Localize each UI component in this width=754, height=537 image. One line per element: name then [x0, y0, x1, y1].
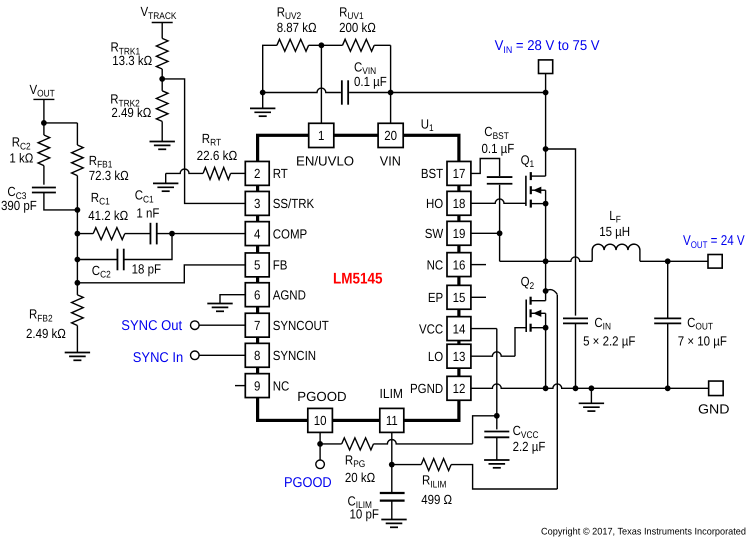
- svg-text:NC: NC: [427, 257, 444, 272]
- svg-text:ILIM: ILIM: [380, 386, 404, 401]
- wire Q1 source down to SW row: [545, 204, 547, 262]
- svg-text:2: 2: [254, 166, 260, 181]
- pin 5 box: [245, 253, 269, 277]
- resistor RFB1: [72, 145, 84, 176]
- wire SW row to inductor with hop over CIN line: [500, 257, 593, 261]
- svg-text:GND: GND: [698, 402, 730, 417]
- wire COUT bottom to PGND: [667, 323, 669, 388]
- svg-text:13: 13: [453, 349, 466, 364]
- wire PGND row with hops: [471, 384, 709, 388]
- resistor RILIM: [421, 459, 451, 471]
- svg-text:7: 7: [254, 318, 260, 333]
- svg-text:14: 14: [453, 321, 466, 336]
- svg-text:1 kΩ: 1 kΩ: [9, 150, 33, 165]
- wire SW down to Q2 drain: [545, 261, 547, 291]
- wire RRT ground stem: [165, 173, 167, 183]
- ground for RTRK2: [150, 141, 175, 143]
- junction CC3 join: [75, 207, 81, 213]
- terminal PGOOD circle: [316, 460, 325, 469]
- svg-text:12: 12: [453, 381, 466, 396]
- pin 7 box: [245, 313, 269, 337]
- svg-text:18 pF: 18 pF: [132, 262, 161, 277]
- resistor RUV2: [277, 39, 309, 51]
- wire FB node to RC1: [77, 233, 93, 235]
- junction SW node: [543, 258, 549, 264]
- svg-text:8: 8: [254, 348, 260, 363]
- wire divider to SS/TRK pin 3: [162, 79, 245, 203]
- svg-text:6: 6: [254, 287, 260, 302]
- wire RTRK1 to RTRK2: [161, 69, 163, 91]
- wire VCC pin 14 right: [471, 328, 497, 330]
- pin 6 box: [245, 283, 269, 307]
- wire pin 10 down: [319, 432, 321, 460]
- wire CILIM to ground: [391, 501, 393, 520]
- svg-text:41.2 kΩ: 41.2 kΩ: [88, 208, 128, 223]
- svg-text:19: 19: [453, 226, 466, 241]
- svg-text:2.49 kΩ: 2.49 kΩ: [26, 326, 66, 341]
- junction PGND COUT bottom: [665, 385, 671, 391]
- op-amp U1 LM5145 controller body: [258, 135, 459, 420]
- svg-text:7 × 10 µF: 7 × 10 µF: [678, 333, 727, 348]
- junction VIN branch to CIN: [543, 146, 549, 152]
- svg-text:15 µH: 15 µH: [599, 224, 630, 239]
- junction pin 20 VIN node: [388, 90, 394, 96]
- junction UVLO divider node: [319, 42, 325, 48]
- inductor LF: [592, 244, 640, 261]
- wire CBST node down: [499, 233, 501, 261]
- svg-text:1: 1: [318, 128, 324, 143]
- resistor RUV1: [343, 39, 375, 51]
- wire RRT to pin 2: [231, 172, 246, 174]
- svg-text:4: 4: [254, 226, 260, 241]
- node VTRACK terminal tick: [152, 22, 173, 24]
- junction track divider node: [159, 76, 165, 82]
- wire CIN bottom to PGND: [575, 323, 577, 388]
- svg-text:SYNCOUT: SYNCOUT: [273, 318, 329, 333]
- pin 1 box: [309, 123, 334, 147]
- wire RFB2 to ground: [76, 326, 78, 353]
- svg-text:20 kΩ: 20 kΩ: [345, 470, 375, 485]
- wire VOUT node to RFB1 top: [44, 122, 78, 124]
- wire RPG to VCC riser with hop: [374, 440, 473, 444]
- junction PGOOD node: [317, 441, 323, 447]
- wire RTRK2 to ground: [161, 121, 163, 141]
- svg-text:BST: BST: [421, 166, 443, 181]
- pin 16 box: [447, 253, 471, 277]
- junction PGND ground stem: [589, 385, 595, 391]
- ground for CVCC: [484, 459, 509, 461]
- svg-text:22.6 kΩ: 22.6 kΩ: [197, 148, 238, 163]
- wire pin 11 down: [391, 432, 393, 464]
- ground for RRT: [153, 182, 178, 184]
- pin 20 box: [378, 123, 403, 147]
- junction CC2 row: [75, 257, 81, 263]
- transistor Q1 high-side NMOS: [525, 176, 527, 206]
- pin 2 box: [245, 161, 269, 185]
- svg-text:COMP: COMP: [273, 226, 308, 241]
- svg-text:PGOOD: PGOOD: [284, 475, 332, 491]
- pin 18 box: [447, 191, 471, 215]
- wire AGND pin 6 to ground: [220, 295, 245, 304]
- pin 8 box: [245, 343, 269, 367]
- svg-text:2.49 kΩ: 2.49 kΩ: [111, 105, 151, 120]
- svg-text:Copyright © 2017, Texas Instru: Copyright © 2017, Texas Instruments Inco…: [541, 526, 746, 537]
- wire VOUT down: [43, 99, 45, 135]
- capacitor COUT: [654, 317, 681, 319]
- wire RUV1 to pin 20 stub: [374, 44, 390, 46]
- pin 3 box: [245, 191, 269, 215]
- junction VOUT node: [41, 120, 47, 126]
- junction RC1 row: [75, 231, 81, 237]
- ground for CILIM: [381, 519, 406, 521]
- junction Q2 source-body: [543, 325, 549, 331]
- svg-text:0.1 µF: 0.1 µF: [354, 74, 387, 89]
- wire Q2 drain stub up: [545, 291, 547, 301]
- junction Q1 source-body: [543, 201, 549, 207]
- svg-text:PGOOD: PGOOD: [297, 389, 346, 404]
- svg-text:SYNC Out: SYNC Out: [121, 318, 182, 334]
- wire PGOOD node to RPG: [320, 443, 342, 445]
- wire CC2 row left: [77, 259, 117, 261]
- terminal VIN input: [539, 60, 553, 74]
- wire UVLO top rail left corner: [263, 45, 277, 108]
- wire LO pin 13 to Q2 gate with hop: [471, 352, 515, 356]
- svg-text:16: 16: [453, 257, 466, 272]
- pin 10 box: [308, 408, 333, 432]
- svg-text:2.2 µF: 2.2 µF: [513, 439, 546, 454]
- wire pin 20 stub: [390, 45, 392, 123]
- svg-text:LM5145: LM5145: [333, 271, 383, 288]
- resistor RRT: [203, 167, 231, 179]
- pin 19 box: [447, 221, 471, 245]
- wire CC2 to COMP node: [124, 234, 172, 260]
- pin 9 box: [245, 374, 269, 398]
- node VOUT terminal tick: [33, 98, 54, 100]
- svg-text:5 × 2.2 µF: 5 × 2.2 µF: [583, 333, 635, 348]
- wire COUT top from VOUT rail: [667, 261, 669, 318]
- svg-text:SYNCIN: SYNCIN: [273, 348, 316, 363]
- pin 11 box: [380, 408, 404, 432]
- svg-text:0.1 µF: 0.1 µF: [482, 141, 515, 156]
- wire VCC node to RPG riser: [473, 416, 497, 444]
- svg-text:SS/TRK: SS/TRK: [273, 196, 315, 211]
- junction PGND CIN bottom: [573, 385, 579, 391]
- wire VIN terminal down to Q1 drain: [545, 74, 547, 177]
- wire CVCC to ground: [496, 437, 498, 460]
- junction VCC node: [494, 413, 500, 419]
- svg-text:NC: NC: [273, 378, 290, 393]
- wire RILIM to sense line: [451, 465, 557, 489]
- pin 15 box: [447, 285, 471, 309]
- wire VCC node to CVCC: [496, 416, 498, 430]
- wire inductor to VOUT terminal: [640, 260, 708, 262]
- svg-text:EN/UVLO: EN/UVLO: [296, 153, 354, 168]
- capacitor CVIN: [341, 80, 343, 104]
- wire CVIN row with hop over pin1 stub: [263, 88, 341, 92]
- ground for power stage: [579, 402, 604, 404]
- svg-text:17: 17: [453, 166, 466, 181]
- pin 12 box: [447, 376, 471, 400]
- junction VIN rail at CVIN row: [543, 90, 549, 96]
- junction COMP node: [169, 231, 175, 237]
- wire RILIM sense elbow: [546, 290, 558, 295]
- capacitor CC2: [116, 249, 118, 271]
- terminal GND: [709, 381, 724, 396]
- junction ILIM node: [389, 462, 395, 468]
- wire PGND ground stem: [590, 388, 592, 403]
- wire NC pin 9 stub: [235, 385, 245, 387]
- svg-text:VCC: VCC: [419, 321, 444, 336]
- resistor RFB2: [72, 295, 84, 326]
- wire HO pin 18 to Q1 gate with hop: [471, 199, 526, 203]
- resistor RC2: [38, 135, 50, 166]
- junction COUT top: [665, 258, 671, 264]
- wire CVIN to VIN rail: [349, 92, 545, 94]
- wire CC3 to feedback node: [44, 193, 78, 210]
- svg-text:72.3 kΩ: 72.3 kΩ: [89, 168, 129, 183]
- svg-text:SYNC In: SYNC In: [133, 350, 183, 366]
- svg-text:AGND: AGND: [273, 287, 306, 302]
- svg-text:1 nF: 1 nF: [136, 206, 159, 221]
- svg-text:18: 18: [453, 196, 466, 211]
- wire VCC vertical: [496, 329, 498, 416]
- junction Q2 drain / RILIM sense: [543, 288, 549, 294]
- svg-text:13.3 kΩ: 13.3 kΩ: [112, 53, 152, 68]
- svg-text:EP: EP: [428, 290, 443, 305]
- wire RC2 to CC3: [43, 166, 45, 185]
- junction CVIN left node: [260, 90, 266, 96]
- wire RILIM sense vertical: [556, 295, 558, 489]
- svg-text:SW: SW: [425, 226, 444, 241]
- ground for AGND: [207, 303, 232, 305]
- wire SYNC Out to pin 7: [199, 324, 245, 326]
- wire pin 1 stub: [320, 45, 322, 123]
- svg-text:390 pF: 390 pF: [1, 198, 37, 213]
- wire pin 19 SW to CBST node: [471, 232, 500, 234]
- capacitor CVCC: [484, 431, 509, 433]
- wire RRT row with hop: [166, 169, 203, 173]
- wire NC pin 16 stub: [471, 264, 486, 266]
- svg-text:10 pF: 10 pF: [350, 507, 379, 522]
- wire FB node vertical: [76, 176, 78, 295]
- junction PGND Q2 source: [543, 385, 549, 391]
- resistor RTRK1: [156, 38, 168, 69]
- terminal SYNC Out circle: [191, 321, 200, 330]
- wire ILIM node to CILIM: [391, 465, 393, 493]
- wire divider to RUV1: [309, 44, 343, 46]
- svg-text:3: 3: [254, 196, 260, 211]
- svg-text:10: 10: [314, 413, 327, 428]
- capacitor CIN: [563, 317, 588, 319]
- capacitor CC1: [149, 223, 151, 245]
- junction FB row: [75, 280, 81, 286]
- pin 13 box: [447, 344, 471, 368]
- capacitor CC3: [32, 187, 56, 189]
- wire Q2 source to PGND row: [545, 328, 547, 389]
- svg-text:200 kΩ: 200 kΩ: [339, 20, 376, 35]
- pin 14 box: [447, 317, 471, 341]
- capacitor CBST: [487, 176, 513, 178]
- wire FB row to pin 5: [77, 265, 245, 283]
- terminal SYNC In circle: [191, 351, 200, 360]
- wire ILIM node to RILIM: [392, 464, 421, 466]
- resistor RPG: [342, 438, 374, 450]
- wire CC1 to COMP pin 4: [157, 233, 246, 235]
- wire BST pin 17 to CBST: [471, 159, 500, 177]
- pin 4 box: [245, 222, 269, 246]
- svg-text:11: 11: [386, 413, 398, 428]
- svg-text:20: 20: [384, 128, 397, 143]
- junction SW CBST node: [497, 230, 503, 236]
- resistor RTRK2: [156, 91, 168, 122]
- svg-text:FB: FB: [273, 258, 288, 273]
- wire SYNC In to pin 8: [199, 354, 245, 356]
- wire RFB1 branch: [76, 123, 78, 145]
- ground for RFB2: [65, 352, 90, 354]
- svg-text:9: 9: [254, 378, 260, 393]
- capacitor CILIM: [380, 492, 405, 494]
- svg-text:HO: HO: [426, 196, 443, 211]
- svg-text:PGND: PGND: [410, 381, 443, 396]
- svg-text:5: 5: [254, 258, 260, 273]
- svg-text:RT: RT: [273, 166, 288, 181]
- resistor RC1: [93, 228, 125, 240]
- svg-text:8.87 kΩ: 8.87 kΩ: [277, 20, 317, 35]
- wire EP pin 15 stub: [471, 296, 486, 298]
- wire RC1 to CC1: [125, 233, 151, 235]
- terminal VOUT output: [708, 255, 722, 269]
- pin 17 box: [447, 161, 471, 185]
- wire CBST down to SW node: [499, 185, 501, 234]
- transistor Q2 low-side NMOS: [525, 300, 527, 333]
- svg-text:LO: LO: [428, 349, 443, 364]
- svg-text:499 Ω: 499 Ω: [421, 492, 452, 507]
- svg-text:VIN: VIN: [380, 153, 401, 168]
- wire VTRACK to RTRK1: [161, 23, 163, 39]
- ground for RUV2/CVIN: [250, 107, 275, 109]
- wire VIN branch to CIN top: [546, 149, 576, 316]
- wire LO riser to Q2 gate: [515, 328, 526, 357]
- svg-text:15: 15: [453, 290, 466, 305]
